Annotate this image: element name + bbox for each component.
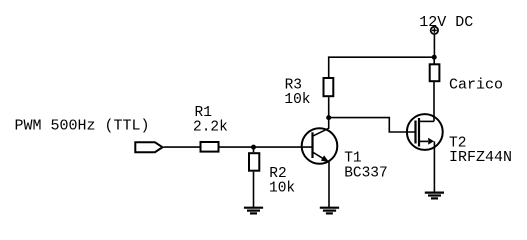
transistor T1 (BJT BC337) [302,128,338,164]
wire R1 to T1 base [220,146,313,148]
ground under R2 [244,208,263,214]
ground under T1 [320,208,339,214]
wire R3 top to supply rail [329,57,434,77]
wire junction to R2 [253,147,255,152]
svg-text:BC337: BC337 [344,165,388,181]
svg-text:12V DC: 12V DC [419,14,473,31]
wire node to R3 [328,97,330,117]
transistor T2 (MOSFET IRFZ44N) [407,114,443,150]
node junction dot collector R3 gate [326,115,331,120]
wire node to T2 gate [329,118,416,132]
node junction dot at R2 tap [251,145,256,150]
svg-text:R2: R2 [269,166,286,182]
resistor Carico (load) [430,64,440,81]
wire node to load resistor [433,57,435,63]
wire T2 source to ground [433,141,435,192]
resistor R2 [249,153,259,171]
resistor R1 [201,142,219,152]
resistor R3 [324,78,334,96]
svg-text:Carico: Carico [449,77,503,94]
wire port to R1 [164,146,200,148]
svg-text:R3: R3 [285,78,302,94]
svg-text:2.2k: 2.2k [193,120,228,136]
supply symbol 12V DC [431,27,438,34]
wire Carico to T2 drain [433,82,435,121]
svg-text:T1: T1 [344,151,361,167]
wire R2 to ground [253,172,255,208]
wire supply to node [433,35,435,57]
ground under T2 [425,193,444,199]
node junction dot supply rail [432,55,437,60]
wire T1 collector to node [328,118,330,129]
svg-text:10k: 10k [284,92,310,108]
svg-text:10k: 10k [269,180,295,196]
svg-text:IRFZ44N: IRFZ44N [449,149,512,166]
svg-text:PWM 500Hz (TTL): PWM 500Hz (TTL) [15,118,150,135]
svg-text:R1: R1 [195,105,212,121]
wire T1 emitter to ground [328,162,330,208]
input port symbol [135,142,162,152]
